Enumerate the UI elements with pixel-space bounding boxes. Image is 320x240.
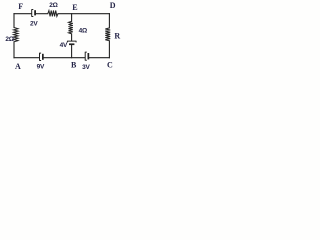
svg-text:B: B: [71, 61, 77, 70]
svg-text:2V: 2V: [30, 20, 38, 27]
svg-text:2Ω: 2Ω: [49, 2, 57, 9]
svg-text:D: D: [110, 1, 116, 10]
svg-text:2Ω: 2Ω: [5, 36, 13, 43]
svg-text:A: A: [15, 62, 21, 70]
svg-text:E: E: [72, 3, 77, 12]
svg-text:9V: 9V: [37, 64, 45, 70]
svg-text:R: R: [114, 32, 120, 41]
svg-text:4V: 4V: [60, 42, 68, 49]
svg-text:3V: 3V: [82, 64, 90, 70]
svg-text:C: C: [107, 60, 113, 69]
svg-text:F: F: [18, 2, 23, 11]
svg-text:4Ω: 4Ω: [79, 28, 87, 35]
